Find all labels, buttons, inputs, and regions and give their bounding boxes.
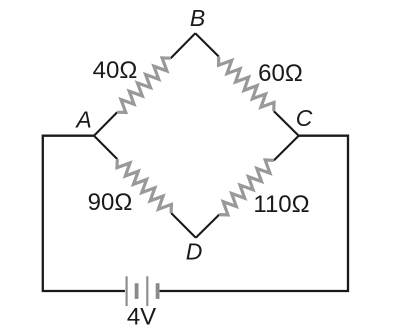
value label 110Ω	[253, 191, 309, 218]
wire left rail (A to bottom-left corner)	[43, 136, 125, 291]
value label 40Ω	[93, 57, 138, 84]
resistor 110Ω (between node D and node C)	[196, 136, 299, 238]
value label 4V	[127, 304, 156, 331]
svg-text:60Ω: 60Ω	[258, 60, 303, 87]
value label 90Ω	[88, 189, 133, 216]
svg-text:A: A	[74, 107, 91, 133]
node B label	[190, 5, 205, 31]
resistor 90Ω (between node A and node D)	[94, 136, 196, 238]
value label 60Ω	[258, 60, 303, 87]
svg-text:D: D	[186, 239, 203, 265]
resistor 40Ω (between node A and node B)	[94, 33, 195, 135]
svg-text:4V: 4V	[127, 304, 156, 331]
svg-text:40Ω: 40Ω	[93, 57, 138, 84]
node A label	[74, 107, 91, 133]
resistor 60Ω (between node B and node C)	[195, 33, 298, 135]
battery 4V (two cells)	[127, 276, 158, 306]
wire right rail (C to bottom-right corner)	[160, 136, 348, 291]
svg-text:C: C	[296, 105, 313, 131]
node D label	[186, 239, 203, 265]
svg-text:90Ω: 90Ω	[88, 189, 133, 216]
svg-text:B: B	[190, 5, 205, 31]
svg-text:110Ω: 110Ω	[253, 191, 309, 218]
node C label	[296, 105, 313, 131]
